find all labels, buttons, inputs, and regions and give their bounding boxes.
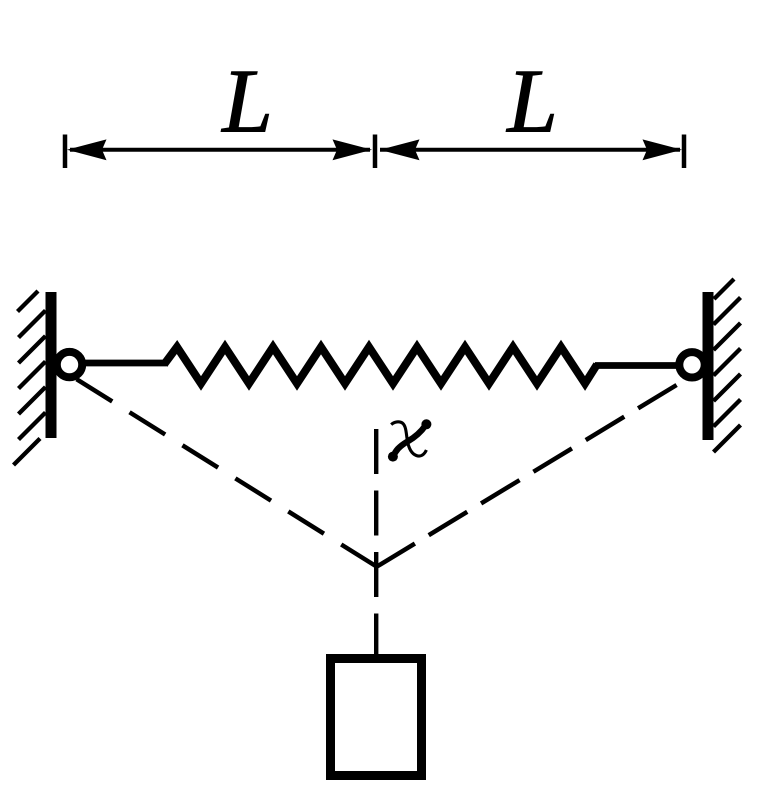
svg-text:L: L xyxy=(220,51,273,152)
svg-text:L: L xyxy=(505,51,558,152)
